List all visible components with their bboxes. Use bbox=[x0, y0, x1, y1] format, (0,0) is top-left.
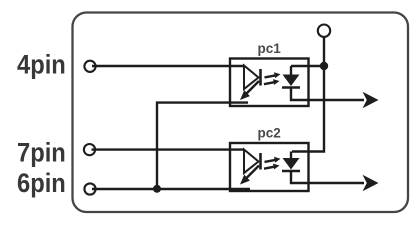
junction dot on 6pin net bbox=[153, 185, 161, 193]
wire pc1 cathode to 6pin net bbox=[157, 103, 248, 188]
pc1 light arrows bbox=[264, 75, 276, 84]
wire 7pin to pc2 anode bbox=[92, 148, 245, 150]
terminal circle pin7 bbox=[84, 144, 95, 155]
pc1 photodiode top lead bbox=[290, 66, 292, 75]
terminal circle top bbox=[318, 25, 330, 37]
terminal circle pin6 bbox=[84, 183, 95, 194]
pc1 LED triangle bbox=[244, 66, 259, 90]
wire pc1 detector top to rail bbox=[291, 65, 324, 67]
terminal circle pin4 bbox=[84, 61, 95, 72]
pc1 photodiode bar bbox=[282, 86, 300, 89]
pc2 LED triangle bbox=[244, 150, 259, 174]
optocoupler pc1 box bbox=[230, 59, 309, 107]
pc2 output arrowhead bbox=[363, 175, 379, 191]
wire 4pin to pc1 anode bbox=[92, 65, 245, 67]
pc2 light arrows bbox=[264, 160, 276, 169]
pc1 output wire bbox=[291, 88, 364, 101]
pc2 LED cathode arrowhead bbox=[240, 175, 250, 185]
pc2 photodiode top lead bbox=[290, 152, 292, 159]
pc2 output wire bbox=[291, 171, 364, 183]
svg-text:pc1: pc1 bbox=[258, 41, 282, 56]
wire 6pin to pc2 cathode bbox=[92, 188, 250, 190]
pc1 photodiode triangle bbox=[283, 75, 300, 87]
pc1 LED cathode arrowhead bbox=[240, 90, 250, 100]
svg-text:7pin: 7pin bbox=[17, 138, 66, 168]
pc2 photodiode bar bbox=[282, 170, 300, 173]
pc2 LED cathode lead bbox=[245, 166, 260, 181]
svg-text:4pin: 4pin bbox=[17, 50, 66, 80]
outer package box bbox=[73, 13, 409, 213]
svg-text:6pin: 6pin bbox=[17, 169, 66, 199]
wire top terminal supply rail bbox=[292, 37, 324, 152]
optocoupler pc2 box bbox=[230, 143, 309, 191]
pc1 LED cathode bar bbox=[259, 69, 262, 86]
pc2 LED cathode bar bbox=[259, 153, 262, 170]
pc2 photodiode triangle bbox=[283, 158, 300, 170]
pc1 output arrowhead bbox=[363, 92, 379, 108]
pc1 LED cathode lead bbox=[245, 81, 260, 96]
junction dot on rail bbox=[320, 62, 328, 70]
svg-text:pc2: pc2 bbox=[258, 126, 281, 141]
